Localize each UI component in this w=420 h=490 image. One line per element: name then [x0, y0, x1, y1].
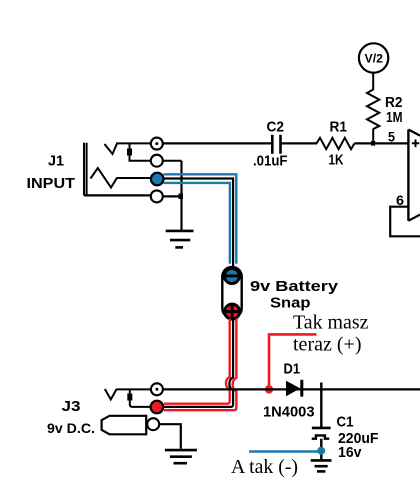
battery snap negative terminal	[224, 269, 239, 284]
ground symbol of J3	[165, 450, 197, 463]
INPUT label	[27, 175, 76, 192]
wire ring contact to terminal 3	[117, 177, 152, 179]
terminal 4 of J1	[151, 190, 163, 202]
svg-text:.01uF: .01uF	[253, 153, 288, 169]
blue annotation wire	[249, 450, 318, 453]
wire vertical drop to terminal 2	[130, 143, 151, 160]
red annotation pointer	[269, 334, 317, 387]
junction tick at J1 ground rail	[179, 194, 184, 200]
terminal 1 of J1	[151, 138, 163, 150]
svg-text:Snap: Snap	[270, 295, 311, 312]
resistor R1	[317, 138, 355, 149]
C2 label	[267, 119, 285, 136]
wire battery positive to J3 (red highlight left)	[164, 319, 230, 404]
svg-text:9v D.C.: 9v D.C.	[47, 420, 95, 436]
Snap label	[270, 295, 311, 312]
svg-text:J3: J3	[62, 398, 81, 415]
wire terminal 1 of J1 to C2	[163, 142, 271, 144]
wire R2 to node 5	[372, 129, 374, 144]
terminal 3 of J1 (ring, blue)	[151, 173, 164, 186]
R1 value 1K	[329, 152, 344, 169]
svg-text:9v Battery: 9v Battery	[250, 278, 339, 295]
R2 value 1M	[386, 109, 403, 126]
wire terminal 4 to ground rail	[163, 195, 182, 197]
wire J1 ring to battery snap (black)	[164, 179, 234, 271]
C1 value 220uF	[338, 430, 379, 447]
svg-text:V/2: V/2	[365, 52, 384, 66]
wire battery positive to J3 (black, hops main rail)	[164, 319, 234, 407]
D1 value 1N4003	[263, 404, 315, 421]
svg-text:J1: J1	[48, 153, 64, 170]
R1 label	[330, 119, 348, 136]
wire J3 sleeve to ground	[159, 424, 180, 449]
J1 tip contact	[105, 144, 118, 155]
C1 value 16v	[338, 444, 362, 461]
wire feedback to inverting input	[390, 207, 420, 237]
pin 6 label	[396, 192, 404, 208]
main +V rail wire	[163, 388, 420, 390]
terminal 2 of J1	[151, 155, 163, 167]
diode D1	[286, 380, 302, 397]
wire terminal 2 to ground rail	[163, 160, 182, 162]
junction tick above C1 branch	[320, 383, 322, 390]
J1 label	[48, 153, 64, 170]
svg-text:D1: D1	[284, 361, 301, 378]
wire C2 to R1	[282, 142, 318, 144]
svg-text:Tak masz: Tak masz	[293, 312, 369, 334]
svg-text:R1: R1	[330, 119, 348, 136]
junction dot on J1 tip wire	[127, 149, 132, 156]
half-supply reference V/2	[359, 43, 388, 72]
wire tip contact to terminal 1	[116, 142, 151, 144]
9v Battery label	[250, 278, 339, 295]
battery snap positive terminal	[225, 304, 240, 319]
ground symbol at C1	[311, 460, 332, 471]
wire V/2 to R2	[372, 73, 374, 90]
J3 label	[62, 398, 81, 415]
jack J1 body	[84, 143, 87, 196]
junction dot on J3 tip wire	[127, 394, 132, 401]
red annotation dot on +V rail	[265, 385, 273, 393]
wire J1 ring to battery (blue highlight top)	[164, 174, 237, 263]
wire rail to C1	[320, 389, 322, 427]
teraz (+) annotation	[293, 334, 362, 356]
J3 barrel sleeve	[102, 416, 147, 435]
A tak (-) annotation	[231, 456, 298, 478]
svg-text:5: 5	[388, 128, 395, 144]
svg-text:teraz (+): teraz (+)	[293, 334, 362, 356]
J1 ring contact	[91, 168, 118, 188]
ground symbol of J1	[166, 231, 194, 248]
ground rail vertical of J1	[180, 161, 182, 231]
wire J3 tip to terminal 1	[116, 388, 151, 390]
svg-text:1K: 1K	[329, 152, 344, 169]
Tak masz annotation	[293, 312, 369, 334]
svg-text:1M: 1M	[386, 109, 403, 126]
wire J1 sleeve bottom	[84, 194, 150, 196]
junction dot R2/R1 node	[371, 141, 375, 146]
R2 label	[385, 94, 403, 111]
terminal 2 of J3 (red, +9V)	[151, 401, 164, 414]
resistor R2	[367, 90, 379, 130]
9v D.C. label	[47, 420, 95, 436]
wire C1 to ground	[320, 439, 322, 460]
capacitor C2	[272, 135, 280, 154]
capacitor C1	[312, 428, 331, 439]
terminal 1 of J3	[151, 383, 163, 395]
battery snap body	[222, 267, 241, 318]
blue annotation dot on ground node	[317, 447, 325, 455]
wire drop to J3 terminal 2	[130, 389, 151, 407]
svg-text:C1: C1	[337, 414, 354, 431]
wire J1 ring to battery (blue highlight bottom)	[164, 183, 230, 264]
svg-text:INPUT: INPUT	[27, 175, 76, 192]
J3 sleeve terminal	[147, 418, 159, 430]
jack J3 tip contact	[105, 389, 117, 400]
wire battery positive to J3 (red highlight right)	[164, 319, 236, 411]
svg-text:1N4003: 1N4003	[263, 404, 315, 421]
node 5 label	[388, 128, 395, 144]
op-amp U1	[408, 130, 420, 221]
svg-text:16v: 16v	[338, 444, 362, 461]
C1 label	[337, 414, 354, 431]
wire R1 to op-amp input	[355, 142, 408, 144]
svg-text:C2: C2	[267, 119, 285, 136]
svg-text:A tak (-): A tak (-)	[231, 456, 298, 478]
C2 value .01uF	[253, 153, 288, 169]
D1 label	[284, 361, 301, 378]
